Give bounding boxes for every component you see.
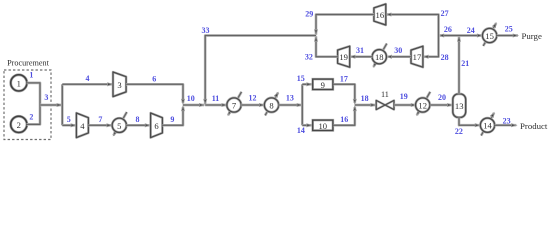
- wire split riser: [61, 84, 64, 125]
- wire stream 22: [459, 117, 480, 126]
- svg-text:31: 31: [356, 46, 364, 55]
- svg-text:17: 17: [413, 52, 422, 62]
- wire stream 31: [350, 55, 372, 58]
- svg-text:11: 11: [212, 94, 220, 103]
- svg-text:18: 18: [361, 94, 369, 103]
- svg-text:4: 4: [86, 74, 90, 83]
- wire stream 27: [386, 13, 438, 36]
- svg-text:1: 1: [17, 78, 21, 88]
- reactor 10: [313, 120, 333, 131]
- compressor 17: [411, 46, 423, 67]
- svg-text:9: 9: [321, 80, 325, 90]
- svg-text:Product: Product: [520, 121, 548, 131]
- svg-text:10: 10: [319, 121, 328, 131]
- wire stream 12: [241, 104, 264, 107]
- wire stream 5: [62, 124, 76, 127]
- svg-text:4: 4: [80, 121, 85, 131]
- label 3: [44, 93, 48, 102]
- cooler 12: [416, 92, 431, 115]
- label 27: [441, 9, 449, 18]
- source 2: [11, 116, 27, 132]
- svg-text:12: 12: [249, 94, 257, 103]
- svg-text:8: 8: [269, 101, 273, 111]
- wire stream 19: [394, 104, 416, 107]
- label 12: [249, 94, 257, 103]
- svg-text:28: 28: [441, 53, 449, 62]
- label 23: [503, 116, 511, 125]
- label 1: [29, 71, 33, 80]
- cooler 7: [227, 92, 242, 115]
- label 19: [400, 92, 408, 101]
- svg-text:11: 11: [381, 90, 389, 99]
- svg-text:6: 6: [154, 121, 159, 131]
- wire stream 4: [62, 83, 112, 86]
- label 20: [438, 93, 446, 102]
- wire stream 32: [315, 36, 338, 56]
- label 33: [202, 26, 210, 35]
- svg-text:5: 5: [67, 115, 71, 124]
- wire reactor split: [301, 84, 304, 125]
- wire stream 8: [126, 124, 150, 127]
- svg-text:6: 6: [152, 75, 156, 84]
- wire stream 9: [162, 106, 184, 125]
- svg-text:2: 2: [17, 120, 21, 130]
- wire stream 21: [458, 36, 461, 94]
- wire stream 18: [355, 104, 376, 107]
- flash drum 13: [453, 94, 466, 118]
- label 2: [29, 113, 33, 122]
- wire stream 10: [183, 104, 204, 107]
- wire stream 1: [27, 83, 41, 105]
- cooler 18: [372, 44, 387, 67]
- wire stream 2: [27, 105, 41, 124]
- wire stream 6: [126, 84, 184, 104]
- label 13: [286, 94, 294, 103]
- wire stream 17: [333, 84, 356, 104]
- compressor 4: [76, 113, 88, 138]
- reactor 9: [313, 79, 333, 90]
- svg-text:16: 16: [376, 10, 385, 20]
- svg-text:20: 20: [438, 93, 446, 102]
- svg-text:30: 30: [394, 46, 402, 55]
- wire stream 13: [278, 104, 302, 107]
- wire stream 28: [423, 36, 438, 59]
- svg-text:3: 3: [117, 80, 121, 90]
- label 22: [455, 127, 463, 136]
- svg-text:5: 5: [117, 121, 121, 131]
- heater 8: [264, 93, 278, 116]
- label 16: [340, 115, 348, 124]
- compressor 6: [151, 113, 163, 138]
- cooler 5: [112, 112, 127, 135]
- label 31: [356, 46, 364, 55]
- label 25: [505, 25, 513, 34]
- label 21: [461, 59, 469, 68]
- label 8: [136, 115, 140, 124]
- svg-text:24: 24: [467, 26, 475, 35]
- svg-text:9: 9: [170, 115, 174, 124]
- label 28: [441, 53, 449, 62]
- procurement box: [4, 59, 51, 140]
- compressor 16: [374, 4, 386, 25]
- label 26: [444, 25, 452, 34]
- text Purge: [522, 31, 542, 41]
- svg-text:7: 7: [232, 101, 237, 111]
- svg-text:2: 2: [29, 113, 33, 122]
- wire stream 24: [459, 34, 482, 37]
- svg-text:19: 19: [400, 92, 408, 101]
- svg-text:33: 33: [202, 26, 210, 35]
- svg-text:18: 18: [375, 52, 384, 62]
- compressor 3: [113, 72, 126, 97]
- svg-text:10: 10: [187, 94, 195, 103]
- svg-text:Purge: Purge: [522, 31, 542, 41]
- svg-text:14: 14: [297, 126, 305, 135]
- svg-text:27: 27: [441, 9, 449, 18]
- svg-text:3: 3: [44, 93, 48, 102]
- wire stream 3: [40, 104, 62, 107]
- wire stream 11: [205, 104, 227, 107]
- compressor 19: [338, 46, 350, 67]
- valve 11: [376, 90, 394, 110]
- svg-text:8: 8: [136, 115, 140, 124]
- svg-text:13: 13: [455, 101, 464, 111]
- label 29: [305, 9, 313, 18]
- svg-text:23: 23: [503, 116, 511, 125]
- label 9: [170, 115, 174, 124]
- label 6: [152, 75, 156, 84]
- label 30: [394, 46, 402, 55]
- wire stream 33: [204, 36, 316, 105]
- wire stream 23: [495, 124, 517, 127]
- label 5: [67, 115, 71, 124]
- heater 15: [482, 23, 496, 46]
- svg-text:7: 7: [98, 115, 102, 124]
- wire stream 16: [333, 106, 356, 125]
- text Product: [520, 121, 548, 131]
- label 32: [305, 53, 313, 62]
- label 24: [467, 26, 475, 35]
- label 15: [297, 74, 305, 83]
- label 4: [86, 74, 90, 83]
- svg-text:25: 25: [505, 25, 513, 34]
- wire stream 15: [302, 83, 311, 86]
- svg-text:15: 15: [297, 74, 305, 83]
- label 10: [187, 94, 195, 103]
- label 11: [212, 94, 220, 103]
- label 7: [98, 115, 102, 124]
- svg-text:12: 12: [418, 101, 427, 111]
- wire stream 29: [315, 15, 374, 35]
- svg-text:Procurement: Procurement: [7, 59, 50, 68]
- svg-text:21: 21: [461, 59, 469, 68]
- svg-text:19: 19: [339, 52, 348, 62]
- wire stream 30: [387, 55, 411, 58]
- wire stream 20: [430, 104, 452, 107]
- wire stream 25: [497, 34, 518, 37]
- svg-text:16: 16: [340, 115, 348, 124]
- label 17: [340, 75, 348, 84]
- wire stream 14: [302, 124, 311, 127]
- svg-text:17: 17: [340, 75, 348, 84]
- label 18: [361, 94, 369, 103]
- svg-text:15: 15: [485, 31, 494, 41]
- wire stream 7: [88, 124, 111, 127]
- svg-text:32: 32: [305, 53, 313, 62]
- svg-text:1: 1: [29, 71, 33, 80]
- svg-text:13: 13: [286, 94, 294, 103]
- source 1: [11, 75, 27, 91]
- wire stream 26: [439, 34, 459, 37]
- svg-text:14: 14: [483, 121, 492, 131]
- svg-text:29: 29: [305, 9, 313, 18]
- label 14: [297, 126, 305, 135]
- svg-text:22: 22: [455, 127, 463, 136]
- svg-text:26: 26: [444, 25, 452, 34]
- heater 14: [480, 113, 494, 136]
